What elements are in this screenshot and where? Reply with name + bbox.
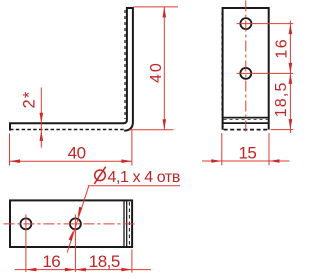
svg-text:2*: 2* [20, 91, 38, 109]
svg-text:40: 40 [68, 143, 86, 162]
svg-text:16: 16 [42, 252, 60, 271]
svg-text:16: 16 [274, 38, 291, 59]
svg-text:40: 40 [148, 61, 165, 83]
svg-text:15: 15 [238, 143, 256, 162]
svg-text:18,5: 18,5 [273, 81, 290, 117]
svg-text:4,1 x 4 отв: 4,1 x 4 отв [108, 169, 180, 186]
svg-text:18,5: 18,5 [89, 252, 120, 271]
